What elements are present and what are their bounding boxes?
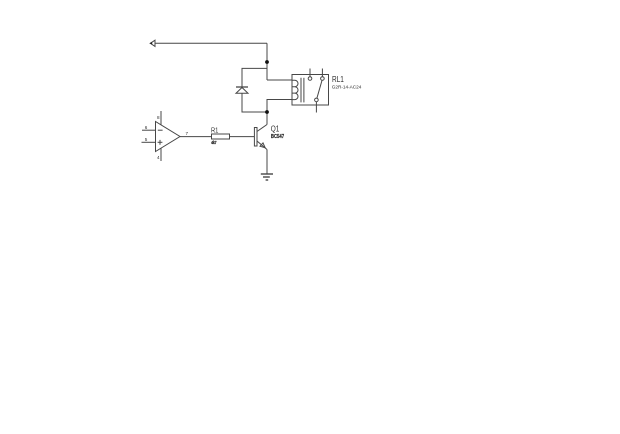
wire relay coil top [267,79,293,81]
node junction dot bottom [265,110,269,114]
svg-text:7: 7 [186,131,189,136]
wire base [230,136,255,138]
transistor Q1 [254,125,267,150]
svg-text:Q1: Q1 [271,124,280,133]
svg-text:4k7: 4k7 [211,140,216,145]
relay RL1 box [292,75,329,106]
svg-text:BC547: BC547 [271,134,284,140]
node junction dot top [265,60,269,64]
relay common contact circle [315,98,319,102]
relay pin up right [321,69,323,77]
wire emitter down [266,150,268,174]
wire top horizontal [155,42,267,44]
svg-text:RL1: RL1 [332,75,344,84]
ground [261,174,273,180]
op-amp U1 [156,122,181,152]
port arrow [149,40,155,46]
relay contact circle left [308,77,312,81]
pin 8 wire (V+ power) [160,111,162,125]
svg-text:8: 8 [157,115,160,120]
svg-text:R1: R1 [211,127,219,134]
relay switch arm [317,80,322,98]
relay contact circle right [321,77,325,81]
pin 6 wire (inverting input) [142,129,156,131]
svg-text:5: 5 [145,137,148,142]
wire diode bottom branch [242,93,267,112]
wire op-amp output [180,136,212,138]
resistor R1 [212,134,230,139]
relay pin down [315,102,317,113]
relay pin up left [309,69,311,77]
pin 4 wire (V- power) [160,148,162,161]
diode [236,87,248,93]
wire diode top branch [242,68,267,87]
wire main vertical upper [266,43,268,80]
svg-text:G2R-14-AC24: G2R-14-AC24 [332,85,362,90]
relay core [301,78,304,103]
pin 5 wire (non-inverting input) [142,141,156,143]
svg-text:6: 6 [145,125,148,130]
svg-text:4: 4 [157,155,160,160]
wire relay coil bottom to collector [267,100,293,125]
relay coil [292,80,298,99]
